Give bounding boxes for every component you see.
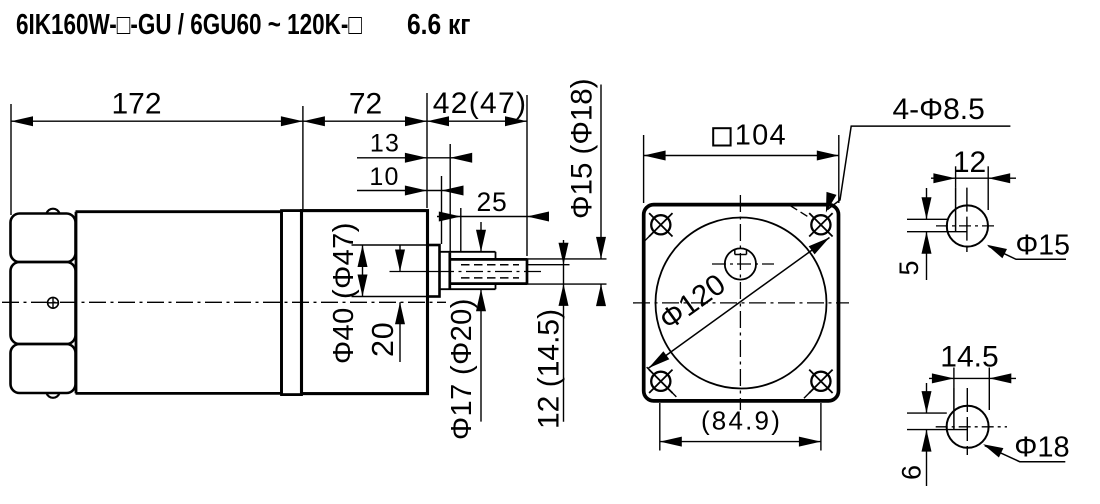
dimension 20 (axis offset) — [399, 245, 401, 272]
svg-text:12: 12 — [953, 146, 986, 179]
svg-text:72: 72 — [349, 88, 382, 121]
output shaft Phi15 — [450, 258, 527, 261]
bolt hole top-left — [651, 215, 670, 234]
svg-text:25: 25 — [476, 187, 507, 217]
dimension 6 (detail2) — [926, 383, 928, 413]
dimension 5 (detail1) — [926, 188, 928, 219]
detail1 keyseat lines — [907, 218, 948, 220]
label Phi18 with leader — [985, 446, 1066, 462]
face view vertical centerline — [739, 195, 741, 410]
dimension 72 — [303, 120, 427, 122]
stator body — [76, 212, 282, 394]
dimension 25 — [437, 216, 547, 218]
gearbox body — [302, 211, 428, 394]
dimension 12 (detail1) — [931, 177, 1016, 179]
motor rear cover fin 3 — [11, 344, 76, 393]
svg-text:(84.9): (84.9) — [701, 406, 782, 436]
bolt hole bottom-right — [811, 372, 830, 391]
dimension (84.9) — [660, 441, 821, 443]
detail shaft section Phi18 — [947, 406, 989, 448]
stator rear boundary line — [75, 212, 78, 394]
svg-text:13: 13 — [370, 130, 400, 158]
motor rear cover fin 1 — [11, 214, 76, 263]
flange circle Phi120 — [656, 218, 827, 389]
dimension 14.5 (detail2) — [929, 377, 1016, 379]
shaft hole horizontal centerline — [712, 263, 774, 265]
detail2 horizontal centerline — [936, 426, 1007, 428]
dimension Phi120 diagonal — [649, 238, 830, 369]
svg-text:Φ17 (Φ20): Φ17 (Φ20) — [446, 298, 478, 440]
label Phi15 with leader — [989, 246, 1067, 259]
dimension 172 — [11, 120, 303, 122]
detail1 horizontal centerline — [936, 225, 997, 227]
detail2 flat edge — [953, 388, 955, 430]
bolt hole top-right — [811, 215, 830, 234]
rear cover top screw head — [47, 209, 60, 214]
shaft hole — [725, 248, 756, 279]
svg-text:172: 172 — [111, 88, 161, 121]
flange square — [644, 205, 839, 401]
svg-text:5: 5 — [894, 260, 924, 275]
svg-text:6: 6 — [896, 465, 926, 480]
detail2 vertical centerline — [966, 388, 968, 455]
dimension square 104 — [644, 155, 839, 157]
shaft shoulder face — [448, 253, 451, 289]
gearbox boss (Phi40/47) — [428, 245, 440, 297]
dimension Phi40 (Phi47) — [352, 244, 429, 246]
motor centerline — [2, 301, 446, 303]
motor front plate — [282, 211, 302, 395]
svg-text:Φ15 (Φ18): Φ15 (Φ18) — [566, 78, 599, 219]
svg-text:10: 10 — [369, 163, 399, 191]
motor rear cover fin 2 — [11, 262, 76, 344]
svg-text:Φ40 (Φ47): Φ40 (Φ47) — [328, 222, 360, 364]
svg-text:20: 20 — [366, 321, 400, 357]
dimension 42(47) — [427, 120, 527, 122]
option outline Phi17/Phi20 section — [440, 251, 496, 253]
svg-text:42(47): 42(47) — [433, 87, 528, 120]
svg-text:104: 104 — [735, 120, 787, 152]
svg-text:6.6 кг: 6.6 кг — [407, 9, 471, 41]
dimension 13 — [357, 157, 470, 159]
svg-text:4-Φ8.5: 4-Φ8.5 — [893, 93, 985, 126]
dimension 12 (14.5) — [527, 264, 570, 266]
shaft centerline — [390, 271, 438, 273]
detail shaft section Phi15 — [947, 205, 988, 246]
face view horizontal centerline — [633, 302, 849, 304]
dimension 10 — [357, 190, 460, 192]
detail1 flat edge — [955, 188, 957, 232]
svg-text:Φ18: Φ18 — [1014, 432, 1069, 464]
dimension Phi17 (Phi20) — [480, 222, 482, 252]
shaft flat hidden edges — [461, 264, 519, 266]
shaft hole keyway notch — [734, 249, 736, 254]
rear cover screw — [48, 297, 59, 308]
svg-text:Φ15: Φ15 — [1016, 230, 1070, 262]
detail2 keyseat lines — [907, 412, 947, 414]
bolt hole bottom-left — [651, 372, 670, 391]
svg-text:6IK160W-□-GU / 6GU60 ~ 120K-□: 6IK160W-□-GU / 6GU60 ~ 120K-□ — [16, 9, 363, 41]
svg-text:12 (14.5): 12 (14.5) — [533, 309, 566, 429]
square symbol of 104 — [713, 128, 730, 145]
dimension Phi15 (Phi18) — [527, 258, 607, 260]
detail1 vertical centerline — [966, 188, 968, 252]
rear cover bottom screw head — [47, 393, 60, 398]
